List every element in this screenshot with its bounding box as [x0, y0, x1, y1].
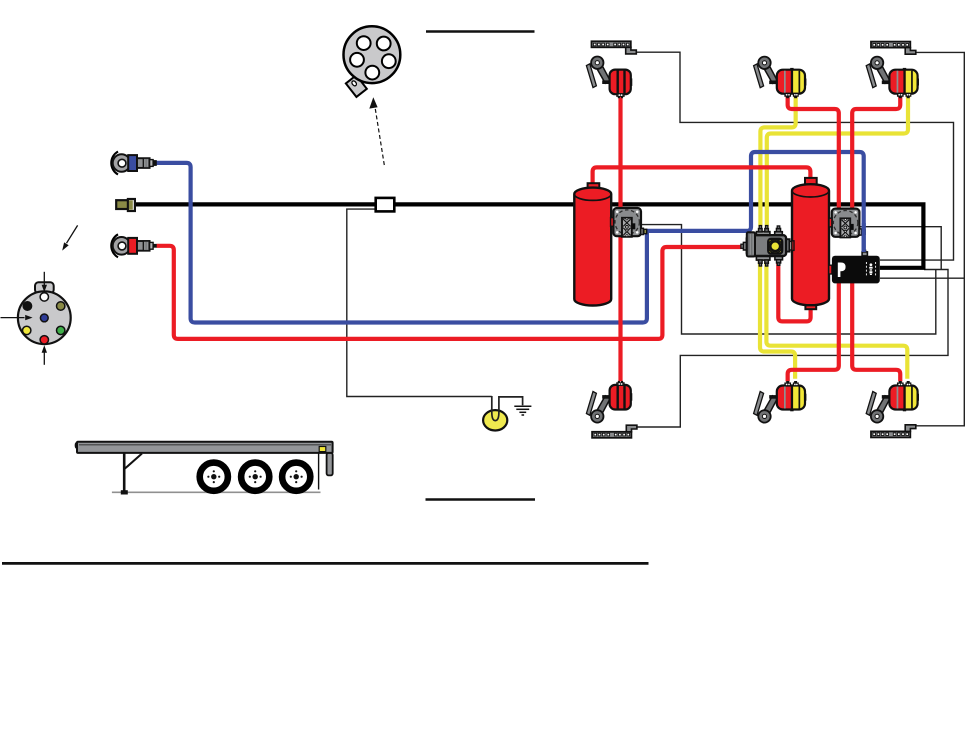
electrical plug — [116, 199, 135, 211]
arrow pointing at connector — [62, 225, 77, 250]
brake chamber top right — [866, 57, 919, 99]
blue line over valve2 fitting — [862, 223, 866, 252]
main power cable — [135, 204, 924, 267]
multi-port spring brake valve — [741, 226, 794, 267]
red service line left axle — [618, 97, 622, 382]
arrow into connector bottom — [42, 345, 47, 365]
arrow into connector top — [42, 272, 47, 292]
ground symbol — [514, 406, 531, 415]
trailer ground line — [112, 491, 321, 493]
caption underline middle — [426, 498, 536, 501]
blue service signal line to ECU — [646, 152, 864, 253]
air tank 2 bottom fitting — [805, 303, 816, 310]
long rule bottom — [2, 562, 649, 565]
trailer wheels — [200, 463, 311, 491]
title underline top — [426, 30, 535, 33]
relay valve 2 — [829, 209, 865, 238]
wire relay valve 2 solenoid — [853, 227, 941, 270]
red service line bottom middle chamber — [788, 283, 839, 382]
arrow into connector left — [1, 315, 33, 320]
tooth ring top-right — [871, 42, 916, 55]
air tank 2 — [792, 184, 829, 305]
ABS warning lamp — [483, 410, 507, 430]
air tank 1 — [574, 188, 611, 306]
yellow spring line outer bottom — [760, 255, 795, 379]
ABS ECU — [829, 250, 880, 283]
blue glad hand (service) — [111, 152, 157, 175]
cable splice box — [376, 198, 395, 212]
wire ABS sensors right side — [916, 52, 965, 425]
trailer — [76, 442, 333, 495]
arrow to holder plate — [369, 97, 384, 165]
wire ABS sensor front-left — [636, 52, 954, 260]
red line valve to tank2 bottom — [778, 262, 810, 321]
yellow spring line outer top — [760, 96, 795, 227]
air tank 1 top fitting — [588, 183, 600, 189]
glad hand holder plate — [344, 26, 401, 83]
wire relay valve 1 solenoid — [635, 225, 936, 334]
yellow spring line inner bottom — [766, 255, 907, 379]
red service line bottom right chamber — [852, 283, 900, 382]
glad hand holder plate tab — [346, 75, 367, 97]
red service line top right chamber — [852, 97, 900, 210]
brake chamber top middle — [754, 57, 807, 99]
tooth ring front-left — [592, 41, 637, 54]
blue service line from glad hand — [157, 163, 647, 323]
air tank 2 top fitting — [805, 178, 817, 185]
red glad hand (emergency) — [111, 234, 156, 257]
red service line top middle chamber — [788, 97, 839, 210]
wire ECU sensor port — [880, 277, 964, 279]
brake chamber bottom middle — [754, 381, 807, 423]
tooth ring bottom-right — [871, 425, 916, 438]
tooth ring rear-left — [592, 425, 637, 438]
yellow spring line inner top — [767, 96, 908, 227]
brake chamber rear-left — [586, 381, 632, 423]
relay valve 1 — [611, 208, 647, 237]
lamp filament + ground wire — [492, 396, 523, 421]
wire to ABS warning lamp — [347, 209, 492, 396]
7-pin connector — [18, 282, 71, 344]
wire ABS sensor rear-left — [637, 270, 948, 428]
red tank crossover line — [593, 167, 811, 184]
red emergency supply line from glad hand — [157, 246, 742, 339]
brake chamber bottom right — [866, 381, 919, 423]
brake chamber front-left — [586, 57, 632, 99]
